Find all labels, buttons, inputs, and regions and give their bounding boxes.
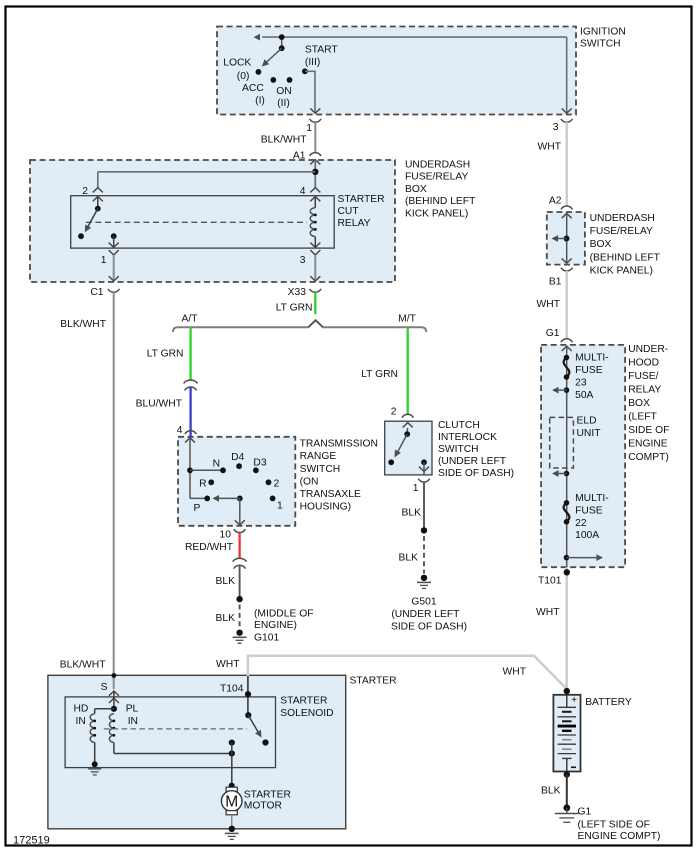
svg-text:172519: 172519	[13, 835, 50, 847]
svg-text:IN: IN	[128, 716, 138, 727]
svg-text:M: M	[225, 794, 238, 811]
svg-text:BLK: BLK	[216, 613, 236, 624]
svg-text:TRANSAXLE: TRANSAXLE	[300, 489, 361, 500]
svg-text:1: 1	[306, 123, 312, 134]
svg-text:P: P	[194, 503, 201, 514]
svg-text:LT GRN: LT GRN	[361, 369, 398, 380]
svg-text:S: S	[101, 682, 108, 693]
svg-text:ON: ON	[276, 86, 291, 97]
svg-text:2: 2	[274, 478, 280, 489]
svg-text:BLK/WHT: BLK/WHT	[60, 659, 106, 670]
svg-text:SWITCH: SWITCH	[438, 444, 479, 455]
svg-text:UNIT: UNIT	[577, 428, 602, 439]
svg-text:SIDE OF DASH): SIDE OF DASH)	[391, 622, 467, 633]
svg-text:LT GRN: LT GRN	[147, 349, 184, 360]
svg-text:ELD: ELD	[577, 416, 597, 427]
svg-text:START: START	[305, 45, 339, 56]
svg-text:(ON: (ON	[300, 476, 319, 487]
svg-text:22: 22	[575, 518, 587, 529]
svg-text:B1: B1	[549, 277, 562, 288]
svg-text:3: 3	[300, 255, 306, 266]
svg-text:RANGE: RANGE	[300, 451, 337, 462]
svg-text:STARTER: STARTER	[280, 696, 327, 707]
svg-text:CUT: CUT	[338, 206, 360, 217]
svg-text:STARTER: STARTER	[338, 194, 385, 205]
svg-text:C1: C1	[90, 287, 103, 298]
svg-text:23: 23	[575, 377, 587, 388]
svg-text:LT GRN: LT GRN	[276, 302, 313, 313]
svg-text:M/T: M/T	[398, 313, 416, 324]
svg-text:WHT: WHT	[538, 142, 562, 153]
svg-text:BLK: BLK	[402, 507, 422, 518]
svg-text:UNDERDASH: UNDERDASH	[405, 160, 470, 171]
svg-text:FUSE: FUSE	[575, 365, 603, 376]
svg-text:IGNITION: IGNITION	[580, 27, 626, 38]
svg-text:MULTI-: MULTI-	[575, 493, 609, 504]
svg-text:UNDERDASH: UNDERDASH	[590, 213, 655, 224]
svg-text:G1: G1	[578, 807, 592, 818]
svg-text:INTERLOCK: INTERLOCK	[438, 432, 497, 443]
svg-text:SWITCH: SWITCH	[300, 464, 341, 475]
svg-text:G501: G501	[411, 597, 436, 608]
svg-text:BLK: BLK	[399, 553, 419, 564]
svg-text:(0): (0)	[237, 71, 250, 82]
svg-text:X33: X33	[288, 287, 307, 298]
svg-text:FUSE: FUSE	[575, 505, 603, 516]
svg-text:(BEHIND LEFT: (BEHIND LEFT	[405, 196, 476, 207]
svg-text:RED/WHT: RED/WHT	[185, 542, 234, 553]
svg-text:LOCK: LOCK	[223, 58, 251, 69]
svg-text:PL: PL	[126, 704, 139, 715]
svg-text:BLK/WHT: BLK/WHT	[261, 135, 307, 146]
svg-text:(III): (III)	[305, 57, 320, 68]
svg-text:SOLENOID: SOLENOID	[280, 708, 333, 719]
svg-text:A1: A1	[293, 151, 306, 162]
svg-text:UNDER-: UNDER-	[628, 344, 668, 355]
svg-text:STARTER: STARTER	[350, 676, 397, 687]
svg-text:ENGINE: ENGINE	[628, 439, 668, 450]
svg-text:MOTOR: MOTOR	[244, 801, 282, 812]
svg-text:(LEFT SIDE OF: (LEFT SIDE OF	[578, 819, 650, 830]
svg-text:D3: D3	[253, 458, 266, 469]
svg-text:ACC: ACC	[242, 83, 264, 94]
svg-text:N: N	[213, 459, 220, 470]
svg-text:100A: 100A	[575, 530, 599, 541]
svg-text:(LEFT: (LEFT	[628, 412, 657, 423]
svg-text:SIDE OF DASH): SIDE OF DASH)	[438, 468, 514, 479]
svg-text:WHT: WHT	[537, 299, 561, 310]
svg-text:G101: G101	[254, 633, 279, 644]
svg-text:4: 4	[177, 425, 183, 436]
svg-text:1: 1	[413, 483, 419, 494]
svg-text:BLU/WHT: BLU/WHT	[136, 399, 183, 410]
svg-text:MULTI-: MULTI-	[575, 353, 609, 364]
svg-text:D4: D4	[231, 452, 244, 463]
svg-text:BOX: BOX	[590, 239, 612, 250]
svg-text:(I): (I)	[255, 95, 265, 106]
svg-text:T101: T101	[538, 576, 562, 587]
svg-text:HOOD: HOOD	[628, 357, 659, 368]
svg-text:RELAY: RELAY	[628, 384, 661, 395]
svg-text:(II): (II)	[277, 98, 290, 109]
svg-text:BOX: BOX	[405, 184, 427, 195]
svg-text:ENGINE COMPT): ENGINE COMPT)	[578, 831, 661, 842]
svg-text:2: 2	[391, 407, 397, 418]
svg-text:+: +	[571, 695, 577, 706]
svg-text:HD: HD	[74, 704, 89, 715]
svg-text:50A: 50A	[575, 390, 593, 401]
svg-text:BATTERY: BATTERY	[585, 697, 632, 708]
svg-text:BLK/WHT: BLK/WHT	[60, 319, 106, 330]
svg-text:3: 3	[553, 122, 559, 133]
svg-text:BLK: BLK	[216, 576, 236, 587]
svg-text:KICK PANEL): KICK PANEL)	[405, 208, 468, 219]
svg-text:R: R	[199, 478, 206, 489]
svg-text:WHT: WHT	[536, 607, 560, 618]
svg-text:SWITCH: SWITCH	[580, 39, 621, 50]
svg-text:G1: G1	[546, 328, 560, 339]
svg-text:FUSE/RELAY: FUSE/RELAY	[405, 172, 468, 183]
svg-text:KICK PANEL): KICK PANEL)	[590, 265, 653, 276]
svg-text:BLK: BLK	[541, 786, 561, 797]
svg-text:(MIDDLE OF: (MIDDLE OF	[254, 609, 314, 620]
svg-text:TRANSMISSION: TRANSMISSION	[300, 439, 378, 450]
svg-text:(UNDER LEFT: (UNDER LEFT	[438, 456, 507, 467]
svg-text:STARTER: STARTER	[244, 790, 291, 801]
svg-text:FUSE/: FUSE/	[628, 371, 658, 382]
svg-text:T104: T104	[220, 684, 244, 695]
svg-text:(BEHIND LEFT: (BEHIND LEFT	[590, 252, 661, 263]
svg-text:BOX: BOX	[628, 398, 650, 409]
svg-text:SIDE OF: SIDE OF	[628, 425, 669, 436]
svg-text:A2: A2	[549, 196, 562, 207]
svg-text:IN: IN	[76, 716, 86, 727]
svg-text:10: 10	[220, 530, 232, 541]
svg-text:2: 2	[82, 186, 88, 197]
svg-text:1: 1	[277, 501, 283, 512]
svg-text:ENGINE): ENGINE)	[254, 620, 297, 631]
svg-text:HOUSING): HOUSING)	[300, 502, 352, 513]
svg-text:RELAY: RELAY	[338, 218, 371, 229]
svg-text:(UNDER LEFT: (UNDER LEFT	[391, 609, 460, 620]
svg-text:WHT: WHT	[216, 659, 240, 670]
svg-text:CLUTCH: CLUTCH	[438, 420, 480, 431]
svg-text:FUSE/RELAY: FUSE/RELAY	[590, 226, 653, 237]
svg-text:A/T: A/T	[181, 313, 198, 324]
svg-text:COMPT): COMPT)	[628, 452, 669, 463]
svg-text:1: 1	[101, 255, 107, 266]
svg-text:WHT: WHT	[503, 667, 527, 678]
svg-text:4: 4	[300, 186, 306, 197]
